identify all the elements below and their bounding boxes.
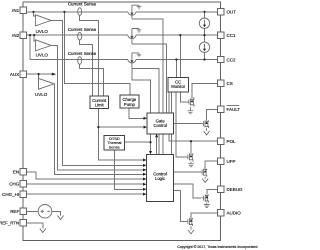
ground (bars) below Q8 — [204, 203, 210, 208]
svg-text:Current Sense: Current Sense — [68, 51, 97, 56]
node current limit line — [97, 126, 99, 128]
current sense element 1 ellipse — [78, 8, 82, 16]
ground (bars) below Q4 — [187, 107, 193, 114]
svg-text:Logic: Logic — [155, 176, 165, 181]
wire CHG pin to control logic — [26, 183, 143, 185]
node gate control down link — [149, 141, 151, 143]
wire fault FET gate — [174, 123, 202, 125]
wire EN pin to control logic — [26, 172, 143, 179]
wire current source rail OUT to CC2 — [204, 12, 206, 60]
svg-text:IN2: IN2 — [12, 33, 20, 38]
wire current sense 1 output hook — [80, 16, 99, 97]
wire DEBUG FET drain to pin — [207, 189, 218, 194]
svg-text:Copyright © 2017, Texas Instru: Copyright © 2017, Texas Instruments Inco… — [177, 245, 257, 249]
wire fault FET drain to FAULT pin — [207, 109, 218, 120]
wire FET1 source hook down to control logic top — [132, 19, 163, 155]
pin EN — [20, 169, 26, 175]
svg-text:CC2: CC2 — [227, 57, 236, 62]
block Gate Control — [147, 113, 174, 134]
arrow gate control to control logic — [149, 151, 152, 154]
wire CC2 to CC monitor — [175, 60, 177, 78]
svg-text:AUX: AUX — [10, 72, 19, 77]
svg-text:UVLO: UVLO — [35, 92, 48, 97]
symbols layer — [35, 5, 209, 218]
wire IN1 tap down to charge pump — [64, 12, 130, 95]
pin POL — [217, 138, 223, 144]
op-amp UVLO1 comparator triangle — [35, 15, 51, 26]
node CC1 rail — [203, 34, 205, 36]
svg-text:CHG: CHG — [9, 182, 19, 187]
svg-text:CHG_HI: CHG_HI — [2, 192, 19, 197]
transistor Q2 pass FET row2 — [128, 29, 141, 45]
arrows into gate control left — [144, 117, 148, 120]
svg-text:Monitor: Monitor — [171, 84, 186, 89]
svg-text:UVLO: UVLO — [36, 29, 49, 34]
pin UFP — [217, 158, 223, 164]
svg-text:EN: EN — [13, 169, 19, 174]
wire FET2 source hook down to gate control top — [132, 44, 167, 113]
wire control logic to audio gate — [174, 191, 187, 222]
block OTSD Thermal Sense — [104, 136, 124, 151]
small-signal FETs and grounds — [40, 97, 210, 234]
wire POL line — [169, 92, 218, 141]
blocks layer — [90, 78, 189, 202]
wire control logic to gate control up — [156, 137, 158, 155]
pin REF — [20, 208, 26, 214]
transistor Q7 UFP output — [200, 169, 207, 177]
svg-text:UFP: UFP — [227, 159, 236, 164]
wire UVLO3 output to control logic — [54, 84, 143, 175]
text layer — [0, 1, 257, 249]
svg-text:FAULT: FAULT — [227, 107, 241, 112]
svg-text:POL: POL — [227, 139, 237, 144]
wire DEBUG gate run — [174, 184, 202, 198]
svg-text:REF: REF — [10, 209, 19, 214]
node OUT rail — [203, 11, 205, 13]
node CC2 monitor tap — [175, 58, 177, 60]
svg-text:Pump: Pump — [124, 102, 136, 107]
transistor Q8 DEBUG output — [201, 195, 208, 203]
wire IN2 branch down to row3 — [29, 35, 31, 59]
op-amp UVLO3 comparator triangle — [39, 78, 55, 89]
wire row3 to CC2 — [30, 59, 217, 61]
wire UVLO1 input drop — [34, 12, 36, 16]
arrowheads — [52, 73, 158, 196]
wire IN1 row to OUT — [26, 11, 217, 13]
node CC1 monitor tap — [179, 34, 181, 36]
current source I1 (OUT to CC1) — [199, 18, 209, 28]
pin OUT — [217, 9, 223, 15]
pin REF_RTN — [20, 220, 26, 226]
pin CC1 — [217, 32, 223, 38]
transistor Q5 fault output — [201, 120, 208, 128]
ground (bars) below Q6 — [188, 162, 194, 167]
wire AUDIO FET drain to pin — [191, 213, 217, 218]
border frame — [23, 2, 220, 241]
wire OTSD output — [114, 142, 150, 189]
transistor Q1 pass FET row1 — [128, 5, 141, 19]
wire CC monitor to control logic — [171, 92, 173, 154]
pin CS — [217, 80, 223, 86]
transistor Q4 fault pull-down upper — [186, 97, 194, 107]
svg-text:AUDIO: AUDIO — [227, 211, 242, 216]
node IN2-UVLO2 — [33, 34, 35, 36]
wire CS pin to FET drain — [192, 83, 217, 99]
wire UFP FET gate — [174, 171, 201, 173]
arrow AUX — [52, 73, 56, 76]
transistor Q9 AUDIO output — [186, 218, 192, 226]
chip outline border — [23, 2, 220, 241]
ground (arrow) below Q9 — [188, 226, 194, 234]
wire gate control to control logic down — [150, 134, 152, 152]
wire UFP pullup FET drain to POL — [190, 141, 192, 153]
arrows into control logic left — [143, 159, 147, 162]
current sense element 2 ellipse — [78, 32, 82, 40]
block Current Limit — [90, 96, 109, 109]
wire AUX line — [26, 73, 54, 75]
pins layer — [20, 7, 224, 226]
arrow control logic to gate control — [155, 134, 158, 137]
svg-text:Sense: Sense — [109, 144, 120, 149]
pin CHG_HI — [20, 191, 26, 197]
wire UFP FET drain to UFP pin — [205, 161, 217, 169]
wire UFP pullup gate — [176, 92, 185, 157]
wire CC monitor to fault pullup gate — [181, 92, 187, 102]
node POL pulldown tap — [190, 140, 192, 142]
op-amp UVLO2 comparator triangle — [35, 40, 51, 51]
wire FET3 source hook down to gate control top — [132, 68, 159, 154]
pin CHG — [20, 181, 26, 187]
wire UVLO2 input drop — [34, 35, 35, 41]
wire charge pump output — [129, 108, 144, 118]
wire current sense 2 output hook — [80, 40, 93, 96]
block CC Monitor — [168, 78, 188, 93]
wire REF_RTN to ground — [26, 223, 42, 229]
pin CC2 — [217, 56, 223, 62]
ground (arrow) REF source — [58, 216, 64, 220]
wire REF source to ground — [52, 211, 61, 215]
wire CC1 to CC monitor — [179, 35, 181, 77]
voltage source REF — [38, 205, 52, 219]
pin FAULT — [217, 106, 223, 112]
wire UVLO1 output to control logic — [51, 20, 143, 165]
svg-text:Control: Control — [153, 123, 167, 128]
block Charge Pump — [120, 95, 139, 108]
current sense element 3 ellipse — [78, 57, 82, 65]
transistor Q6 UFP pull-up (POL pulldown) — [185, 153, 193, 161]
wire UVLO3 input drop — [38, 74, 40, 84]
pin DEBUG — [217, 186, 223, 192]
block Control Logic — [147, 154, 174, 201]
wire CHG_HI pin to control logic — [26, 193, 143, 195]
wire current limit output — [98, 109, 144, 160]
pin IN2 — [20, 32, 26, 38]
svg-text:CC1: CC1 — [227, 33, 236, 38]
ground (arrow) below Q5 — [204, 128, 210, 135]
wire IN2 row to CC1 — [26, 34, 217, 36]
svg-text:OUT: OUT — [227, 10, 237, 15]
pin AUX — [20, 71, 26, 77]
node IN2 row3 branch — [29, 34, 31, 36]
node IN1 sense tap — [63, 11, 65, 13]
wire current sense 3 output hook — [80, 65, 104, 97]
svg-text:DEBUG: DEBUG — [227, 187, 244, 192]
pin IN1 — [20, 7, 26, 13]
svg-text:IN1: IN1 — [12, 8, 20, 13]
svg-text:UVLO: UVLO — [36, 52, 49, 57]
svg-text:REF_RTN: REF_RTN — [0, 221, 19, 226]
pin AUDIO — [217, 210, 223, 216]
svg-text:CS: CS — [227, 81, 233, 86]
node AUX-UVLO3 — [38, 73, 40, 75]
ground (arrow) below Q7 — [202, 177, 208, 183]
ground (arrow) REF_RTN — [40, 229, 46, 233]
svg-text:Limit: Limit — [95, 103, 105, 108]
node CC2 rail — [203, 58, 205, 60]
current source I2 (CC1 to CC2) — [199, 42, 209, 52]
wire REF pin to source — [26, 210, 38, 212]
wire UVLO2 output to control logic — [51, 45, 143, 169]
svg-text:Current Sense: Current Sense — [68, 1, 97, 6]
node IN1-UVLO1 — [32, 11, 34, 13]
svg-text:Current Sense: Current Sense — [68, 27, 97, 32]
transistor Q3 pass FET row3 — [128, 53, 141, 68]
